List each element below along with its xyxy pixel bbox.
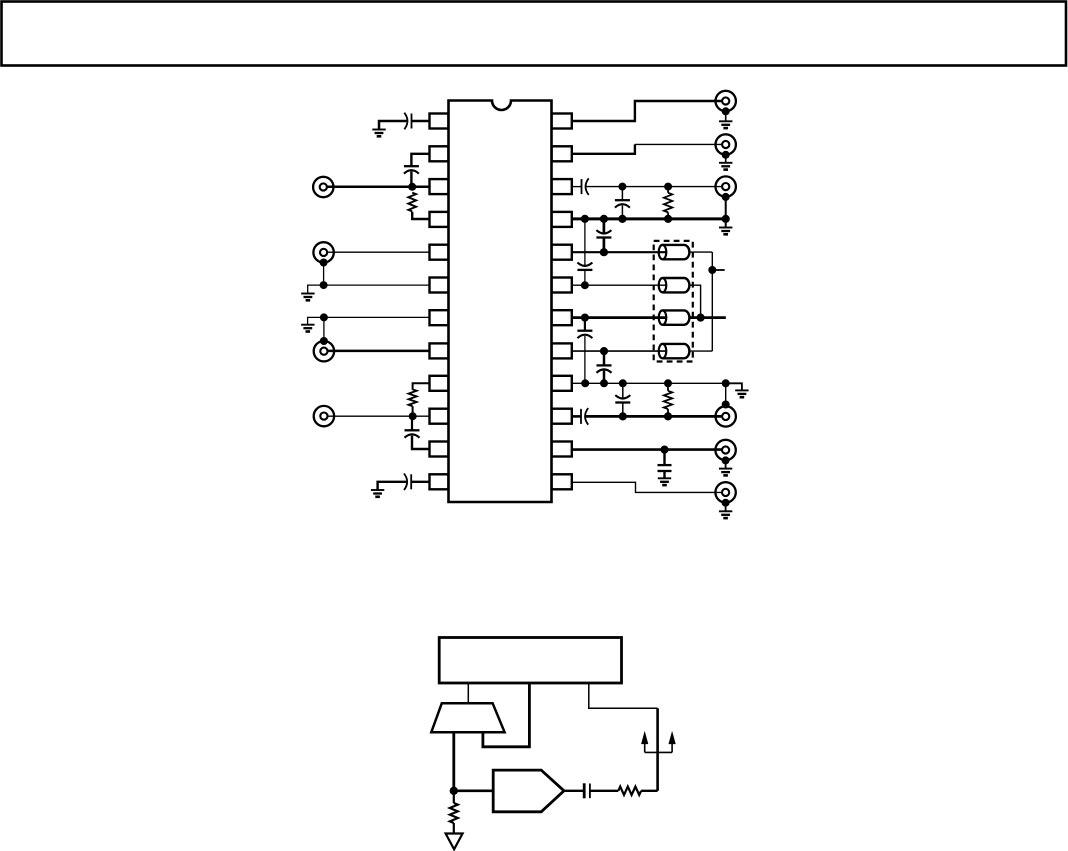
node G1 (pin20) [600,248,608,256]
wire C3 to pin11 [412,436,430,449]
arrow shaft right [671,741,673,752]
pin 21 (right pin) [552,212,572,227]
title block frame [2,2,1067,66]
wire pin24 to J5 [572,101,722,121]
wire U2 to riser [589,683,658,708]
riser wire [656,708,659,791]
bus node F5 [722,215,730,223]
wire bus to C11 [584,219,586,265]
arrow shaft left [644,741,646,752]
pin 16 (right pin) [552,376,572,391]
node G4 (pin17) [600,347,608,355]
wire J4 to pin10 [328,415,430,417]
capacitor C13 (pin17 to pin16 net) [597,364,612,366]
node A (pin 3 junction) [408,183,416,191]
node J8 shield [722,401,730,409]
node I2 [600,379,608,387]
bus wire pin21 [572,217,726,220]
wire DL1 output [689,251,712,253]
node M1 (pin14) [660,446,668,454]
wire DL1-DL4 tie [711,252,713,351]
ground (J10) [719,510,732,512]
pin 7 (left pin 7) [430,310,449,325]
resistor R6 (feedback) [618,787,641,795]
node J10 shield [722,499,730,507]
wire pin18 to DL3 [572,316,667,319]
node G3 (pin18) [581,314,589,322]
pin 10 (left pin 10) [430,409,449,424]
node J2 shield [320,259,328,267]
jack J7 (RCA output) [716,176,736,196]
wire node I5 to J8 shield [725,383,727,404]
wire pin23 out [572,144,635,153]
wire node D to C3 [411,416,413,430]
wire DL4 output [689,350,712,352]
wire node C to J3 [323,317,325,341]
ground (pin 6 net) [301,293,314,295]
arrow bracket wire [645,751,672,753]
resistor R1 (pins 3-4) [408,193,416,212]
wire pin18 node to C12 [584,318,586,331]
arrowhead right [669,732,675,743]
jack J5 (RCA output) [716,91,736,111]
ground (pin 1 net) [372,129,385,131]
wire pin15 to C6 [572,415,581,418]
node C (pin 7 junction) [320,313,328,321]
pin 12 (left pin 12) [430,474,449,489]
wire C12 to pin16 net [584,336,586,383]
wire pin16 to ground [726,383,742,390]
node B (pin 6 junction) [320,281,328,289]
pin 14 (right pin) [552,442,572,457]
wire J1 to pin3 [327,186,429,189]
jack J2 (RCA input) [313,242,333,262]
capacitor C7 (pin 14) [658,464,672,466]
pin 8 (left pin 8) [430,343,449,358]
wire J2 shield down [323,263,325,286]
node I5 [722,379,730,387]
wire C14 to pin15 net [622,403,624,417]
ground (J6) [719,162,732,164]
stub H1 [712,269,724,271]
wire pin1 to C1 [412,120,430,123]
node I1 [581,379,589,387]
wire node B to pin6 [324,284,430,286]
pin 5 (left pin 5) [430,245,449,260]
resistor R4 (pin16 to pin15 net) [667,383,669,391]
capacitor C11 (bus to pin19 net) [577,269,592,271]
wire J7 shield to bus [725,197,727,219]
wire node C to pin7 [324,316,430,318]
capacitor C5 (pin 22) [581,179,583,194]
node P (summing node) [450,787,458,795]
resistor R5 (to ground) [453,791,455,803]
delay line DL1 [663,244,685,246]
amp A1 (pentagon buffer) [493,770,564,812]
pin 11 (left pin 11) [430,442,449,457]
node E1 [618,183,626,191]
ground (pin 21 bus) [719,227,732,229]
pin 15 (right pin) [552,409,572,424]
capacitor C14 (pin16 to pin15 net) [615,401,630,403]
pin 1 (left pin 1) [430,114,449,129]
wire C2 to node A [410,171,412,186]
jack J3 (RCA input) [314,341,334,361]
capacitor C9 (to pin-21 bus) [615,199,630,201]
jack J9 (RCA output) [715,440,735,460]
wire pin12 to C4 [411,481,429,483]
wire J3 to pin8 [328,350,430,353]
ground (pin 12 net) [371,489,384,491]
bus node F1 [581,215,589,223]
wire J9 shield to ground [725,460,727,468]
pin 9 (left pin 9) [430,376,449,391]
node E2 [664,183,672,191]
wire C1 to ground [379,121,407,130]
wire node C to ground [308,317,324,324]
wire R1 to pin4 [412,212,429,219]
arrowhead left [642,732,648,743]
capacitor C6 (pin 15) [580,409,582,424]
node I3 [619,379,627,387]
pin 18 (right pin) [552,310,572,325]
wire C10 to pin20 net [603,238,606,253]
wire C8 to R6 [590,790,618,792]
node G2 (pin19) [581,281,589,289]
wire R6 to riser [641,790,658,792]
wire pin14 to J9 [572,448,722,451]
pin 13 (right pin) [552,474,572,489]
pin 24 (right pin) [552,114,572,129]
node J7 shield [722,193,730,201]
wire DL2 output [689,285,700,317]
capacitor C2 (pins 2-3) [404,165,419,167]
wire J10 shield to ground [725,503,727,512]
wire DL3 output [689,316,725,319]
delay line module frame (dashed) [654,241,693,362]
bus node F4 [664,215,672,223]
capacitor C12 (pin18 to pin16 net) [577,330,592,332]
node J9 shield [722,456,730,464]
wire node P to amp A1 [454,789,493,792]
wire J6 shield to ground [725,155,727,163]
node H2 (DL2 to pin18 line) [697,314,705,322]
wire bus to ground [725,219,727,228]
wire C11 to pin19 net [584,270,586,285]
delay line DL4 [663,343,685,345]
node H1 [708,266,716,274]
wire pin2 to C2 [411,154,429,166]
resistor R2 (pins 9-10) [409,389,417,406]
capacitor C10 (bus to pin20 net) [596,236,611,238]
block U2 (control box) [439,638,621,684]
wire node E1 to C9 [621,187,623,201]
wire A1 to C8 [564,790,583,792]
wire C5 to J7 [586,186,721,188]
ground (J9) [719,468,732,470]
ground (pin 16 net) [735,389,748,391]
node D (pin 10 junction) [409,412,417,420]
ground (C7) [658,477,671,479]
capacitor C4 (pin 12) [410,474,412,489]
ground (J5) [719,120,732,122]
pin 19 (right pin) [552,278,572,293]
wire pin17 node to C13 [603,351,606,365]
wire node I3 to C14 [622,383,624,398]
jack J10 (RCA output) [715,482,735,502]
wire C6 to J8 [586,415,722,418]
wire node B to ground [308,285,324,293]
ground arrow (open triangle) [446,834,463,850]
resistor R3 (pin22 net to bus) [667,187,669,193]
IC U1 body with pin-1 notch [449,101,552,503]
node J6 shield [722,151,730,159]
wire pin19 to DL2 [572,284,667,286]
wire pin22 to C5 [572,186,582,188]
wire R2 to node D [412,406,414,416]
capacitor C3 (pins 10-11) [405,429,420,431]
pin 22 (right pin) [552,179,572,194]
node I4 [664,379,672,387]
wire pin16 net [572,382,726,384]
capacitor C8 (A1 output) [583,783,586,798]
pin 17 (right pin) [552,343,572,358]
mixer T1 (trapezoid) [431,703,504,732]
wire pin20 to DL1 [572,251,667,253]
wire C4 to ground [378,482,407,490]
node K2 [664,412,672,420]
wire U2 feedback loop [483,683,530,747]
delay line DL2 [663,277,685,279]
wire J5 shield to ground [725,111,727,121]
wire C7 to ground [663,471,665,478]
bus node F2 [600,215,608,223]
node K1 [619,412,627,420]
wire pin13 to J10 [572,482,722,492]
jack J4 (RCA input) [314,406,334,426]
pin 20 (right pin) [552,245,572,260]
wire bus to C10 [603,219,606,233]
wire M1 to C7 [663,450,665,466]
bus node F3 [618,215,626,223]
delay line DL3 [663,309,685,311]
pin 6 (left pin 6) [430,278,449,293]
wire C13 to pin16 net [603,371,606,384]
pin 3 (left pin 3) [430,179,449,194]
wire U2 to mixer [467,683,469,703]
wire to J6 [635,143,722,145]
capacitor C1 (pin 1) [411,114,413,129]
wire pin9 to R2 [413,383,430,390]
wire J2 to pin5 [328,251,430,253]
wire T1 output down [452,732,455,791]
wire C9 to bus [621,205,623,219]
ground (pin 7 net) [301,324,314,326]
pin 23 (right pin) [552,146,572,161]
jack J6 (RCA output) [716,134,736,154]
jack J8 (RCA output) [716,406,736,426]
node J5 shield [722,107,730,115]
jack J1 (RCA input) [313,177,333,197]
pin 2 (left pin 2) [430,146,449,161]
pin 4 (left pin 4) [430,212,449,227]
wire pin17 to DL4 [572,350,667,352]
node J3 shield [320,337,328,345]
